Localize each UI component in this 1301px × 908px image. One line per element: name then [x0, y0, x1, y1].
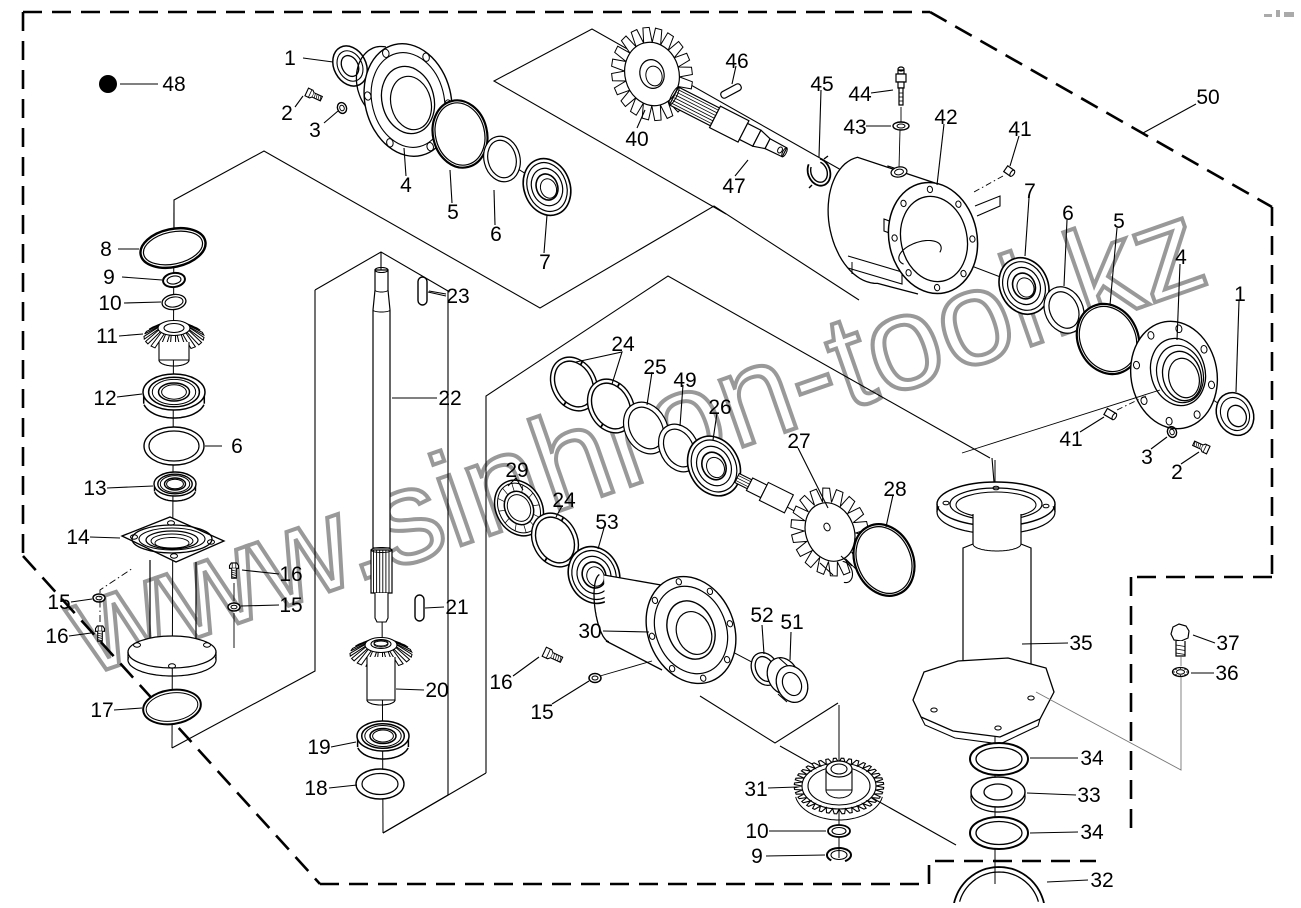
- ring 25: [615, 394, 677, 461]
- bolt 2 right: [1192, 439, 1210, 453]
- bearing 26: [677, 427, 750, 505]
- svg-text:49: 49: [673, 369, 696, 392]
- washer 3 top-left: [336, 101, 348, 114]
- snap ring 45: [808, 159, 831, 186]
- svg-text:45: 45: [810, 73, 833, 96]
- svg-text:7: 7: [539, 251, 551, 274]
- panel outline shaft 22 top: [315, 252, 448, 291]
- svg-text:28: 28: [883, 478, 906, 501]
- svg-text:7: 7: [1024, 180, 1036, 203]
- housing tube below 14: [149, 560, 151, 641]
- panel diagonal to bottom right: [780, 746, 956, 845]
- svg-text:6: 6: [1062, 202, 1074, 225]
- axis line gear 20 column: [382, 596, 383, 833]
- svg-text:34: 34: [1080, 821, 1104, 844]
- svg-text:37: 37: [1216, 632, 1239, 655]
- svg-text:1: 1: [1234, 283, 1246, 306]
- watermark www.sinhron-tool.kz: [48, 170, 1223, 704]
- svg-text:21: 21: [445, 596, 468, 619]
- svg-text:6: 6: [490, 223, 502, 246]
- washer 43: [893, 122, 909, 130]
- svg-text:3: 3: [309, 119, 321, 142]
- pinion shaft 27: [733, 469, 794, 513]
- svg-text:23: 23: [446, 285, 469, 308]
- item 48 black dot: [99, 75, 117, 93]
- axis line middle bottom row: [505, 500, 792, 684]
- svg-text:44: 44: [848, 83, 872, 106]
- key 23: [418, 277, 427, 305]
- svg-text:40: 40: [625, 128, 648, 151]
- svg-text:4: 4: [400, 174, 412, 197]
- panel outline gear 40 group: [494, 29, 880, 214]
- washer 15 mid: [228, 603, 240, 611]
- svg-text:51: 51: [780, 611, 803, 634]
- svg-text:9: 9: [751, 845, 763, 868]
- dash-dot leader 41 right: [1117, 396, 1146, 410]
- ring 9 lower: [827, 848, 851, 861]
- seal 29: [485, 472, 553, 545]
- svg-text:16: 16: [279, 563, 302, 586]
- flange 4 top-left: [356, 47, 398, 120]
- svg-text:5: 5: [447, 201, 459, 224]
- svg-text:33: 33: [1077, 784, 1100, 807]
- bolt 16 bottom: [542, 647, 563, 664]
- svg-text:5: 5: [1113, 210, 1125, 233]
- housing 30: [604, 575, 678, 670]
- bolt 41 top: [1004, 166, 1016, 177]
- o-ring 28: [842, 514, 925, 605]
- panel outline V under part 30: [700, 696, 838, 743]
- svg-text:2: 2: [1171, 461, 1183, 484]
- bevel gear 20: [374, 638, 381, 640]
- svg-text:47: 47: [722, 175, 745, 198]
- svg-text:14: 14: [66, 526, 90, 549]
- svg-text:24: 24: [552, 489, 576, 512]
- ring 6 top-left: [479, 132, 525, 185]
- key 46: [720, 83, 743, 100]
- axis line pedestal 35: [994, 460, 996, 884]
- svg-text:31: 31: [744, 778, 767, 801]
- ring 34 lower: [970, 817, 1028, 849]
- ring 34 upper: [970, 743, 1028, 775]
- svg-text:27: 27: [787, 430, 810, 453]
- svg-text:46: 46: [725, 50, 748, 73]
- svg-text:15: 15: [530, 701, 553, 724]
- bevel gear 27: [791, 488, 869, 576]
- bearing 53: [559, 538, 629, 612]
- collar 51: [761, 652, 804, 699]
- inner dashed border region 50 vertical: [1130, 577, 1133, 831]
- bearing 7 top-left: [515, 152, 578, 222]
- svg-text:20: 20: [425, 679, 448, 702]
- o-ring 5 top-left: [426, 94, 495, 173]
- shaft 22 lower stub: [375, 593, 388, 622]
- svg-text:8: 8: [100, 238, 112, 261]
- pedestal 35 top flange: [937, 482, 1055, 526]
- spur gear 31: [796, 797, 883, 820]
- outer dashed border left vertical: [22, 12, 25, 556]
- svg-text:24: 24: [611, 333, 635, 356]
- gear 31 hub: [826, 769, 852, 790]
- panel outline middle group: [486, 276, 990, 773]
- washer 3 right: [1166, 425, 1178, 438]
- svg-text:19: 19: [307, 736, 330, 759]
- panel outline shaft 22 right edge: [383, 291, 448, 833]
- outer dashed border right vertical: [1271, 207, 1274, 577]
- snap ring 24 a: [541, 349, 606, 419]
- axis line gear 31: [838, 705, 840, 858]
- snap ring 24 c: [522, 505, 587, 575]
- svg-text:52: 52: [750, 604, 773, 627]
- svg-text:22: 22: [438, 387, 461, 410]
- svg-text:18: 18: [304, 777, 327, 800]
- svg-text:10: 10: [98, 292, 121, 315]
- leader bolt 37 to base: [1180, 657, 1182, 666]
- axis line middle top row: [560, 376, 888, 562]
- pin 21: [415, 595, 424, 621]
- svg-text:9: 9: [103, 266, 115, 289]
- bearing 13: [155, 492, 196, 501]
- svg-text:29: 29: [505, 459, 528, 482]
- fork leader 29: [508, 478, 523, 490]
- svg-text:50: 50: [1196, 86, 1219, 109]
- dashed step near part 32: [929, 861, 1096, 884]
- bevel gear 40: [612, 27, 693, 120]
- svg-text:6: 6: [231, 435, 243, 458]
- svg-text:1: 1: [284, 47, 296, 70]
- bottom flange of tube: [128, 636, 216, 668]
- svg-text:25: 25: [643, 356, 666, 379]
- washer 15 bottom: [589, 674, 601, 683]
- svg-text:17: 17: [90, 699, 113, 722]
- bolt 2 top-left: [305, 88, 323, 102]
- svg-text:41: 41: [1059, 428, 1082, 451]
- outer dashed border top: [23, 11, 930, 14]
- outer dashed border bottom-left diagonal: [23, 556, 320, 884]
- washer 15 left: [93, 594, 105, 602]
- pedestal 35 base plate: [913, 658, 1054, 737]
- svg-text:16: 16: [45, 625, 68, 648]
- svg-text:43: 43: [843, 116, 866, 139]
- svg-text:32: 32: [1090, 869, 1113, 892]
- bolt 41 right: [1104, 408, 1118, 420]
- svg-text:26: 26: [708, 396, 731, 419]
- seal 1 right: [1209, 386, 1260, 441]
- bevel gear 11: [167, 321, 174, 323]
- flange plate 14: [122, 517, 224, 562]
- axis line left column: [172, 200, 174, 748]
- svg-text:15: 15: [279, 594, 302, 617]
- panel outline shaft 22 left edge: [172, 290, 315, 748]
- ring 10 lower: [828, 825, 850, 837]
- seal 1 top-left: [326, 40, 374, 92]
- svg-text:41: 41: [1008, 118, 1031, 141]
- grease fitting 44: [898, 70, 904, 74]
- bolt 37: [1171, 624, 1189, 641]
- bearing 7 right: [990, 250, 1058, 323]
- washer 33: [971, 777, 1025, 807]
- svg-text:12: 12: [93, 387, 116, 410]
- axis line top-left group: [350, 66, 547, 187]
- svg-text:15: 15: [47, 591, 70, 614]
- leader lines: [303, 58, 333, 62]
- ring 52: [746, 648, 784, 690]
- pedestal 35 column: [963, 514, 1031, 690]
- snap ring 24 b: [578, 371, 643, 441]
- svg-text:36: 36: [1215, 662, 1238, 685]
- svg-text:48: 48: [162, 73, 185, 96]
- ring 6 left: [144, 427, 204, 465]
- o-ring 17: [141, 686, 203, 728]
- svg-text:11: 11: [96, 325, 118, 348]
- svg-text:35: 35: [1069, 632, 1092, 655]
- fork leader 24 top: [576, 352, 622, 384]
- panel outline top-left group: [174, 151, 859, 308]
- bolt 16 mid: [230, 563, 239, 568]
- cover 32 arc: [954, 867, 1044, 903]
- ring 6 right: [1037, 280, 1092, 340]
- ring 18: [356, 769, 404, 799]
- shaft 22: [375, 270, 388, 290]
- o-ring 5 right: [1066, 294, 1151, 385]
- washer 36: [1173, 668, 1189, 677]
- axis line right group: [885, 233, 1235, 414]
- svg-text:34: 34: [1080, 747, 1104, 770]
- ring 49: [650, 417, 707, 479]
- gear 20 hub: [367, 657, 395, 700]
- bearing 12: [144, 405, 204, 418]
- ring 9: [162, 272, 186, 289]
- bolt 16 left: [96, 626, 105, 631]
- svg-text:53: 53: [595, 511, 618, 534]
- outer dashed border bottom horizontal: [320, 883, 929, 886]
- housing 42: [836, 192, 852, 210]
- flange 4 right: [1122, 314, 1225, 435]
- svg-text:16: 16: [489, 671, 512, 694]
- svg-text:30: 30: [578, 620, 601, 643]
- svg-text:4: 4: [1175, 246, 1187, 269]
- shaft 22 spline section: [371, 550, 392, 593]
- tiny corner mark: [1264, 10, 1294, 17]
- ring 10: [161, 293, 187, 311]
- svg-text:10: 10: [745, 820, 768, 843]
- svg-text:2: 2: [281, 102, 293, 125]
- svg-text:3: 3: [1141, 446, 1153, 469]
- outer dashed border top-right diagonal: [930, 12, 1272, 207]
- svg-text:42: 42: [934, 106, 957, 129]
- inner dashed border region 50 horizontal: [1131, 576, 1272, 579]
- o-ring 8: [137, 223, 209, 274]
- svg-text:13: 13: [83, 477, 106, 500]
- shaft 47: [666, 84, 791, 164]
- leader 23 pin: [429, 291, 446, 294]
- bearing 19: [358, 748, 408, 759]
